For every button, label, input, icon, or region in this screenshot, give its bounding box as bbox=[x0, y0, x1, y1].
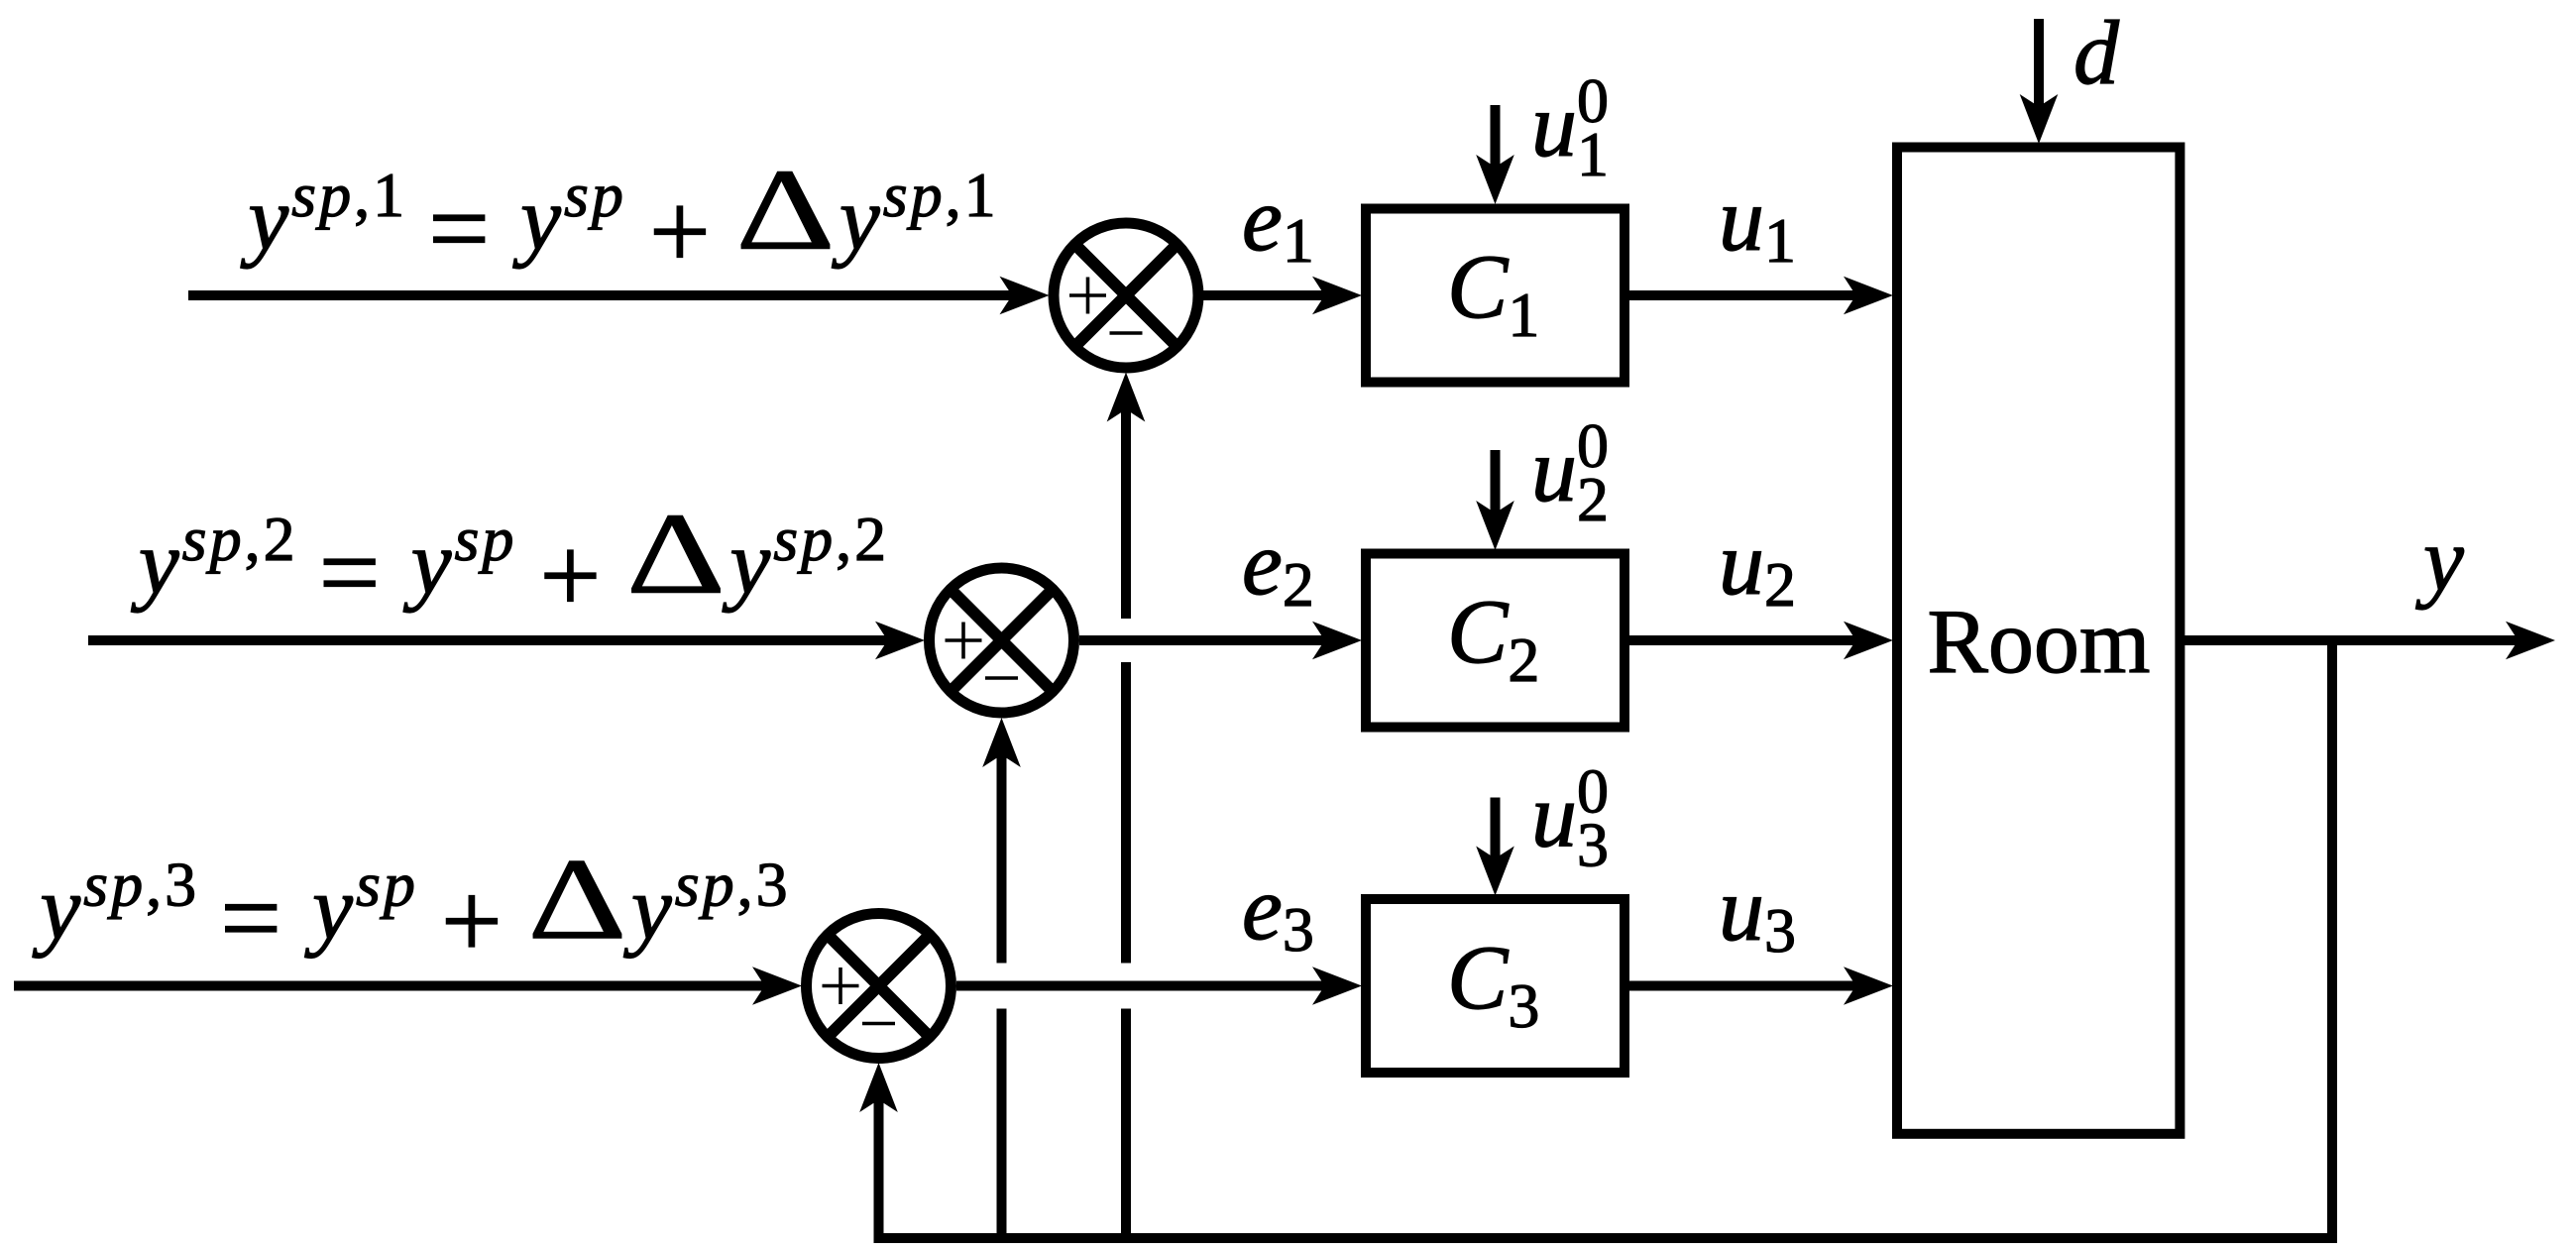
svg-text:u01: u01 bbox=[1531, 65, 1609, 189]
arrowhead into junction 3 bbox=[752, 967, 802, 1005]
svg-text:Room: Room bbox=[1928, 591, 2151, 692]
arrowhead feedback into junction 3 bottom bbox=[859, 1063, 898, 1112]
svg-text:u2: u2 bbox=[1719, 512, 1796, 620]
wire feedback riser to junction 1 bbox=[1121, 388, 1131, 1239]
wire feedback takeoff down + bus + left corner up bbox=[879, 640, 2333, 1238]
svg-text:e1: e1 bbox=[1242, 169, 1314, 276]
arrowhead u2 into Room bbox=[1844, 622, 1893, 660]
svg-text:e2: e2 bbox=[1242, 512, 1314, 620]
arrowhead e1 into C1 bbox=[1312, 277, 1362, 315]
wire u3-0 bias arrow into C3 top bbox=[1491, 798, 1501, 881]
svg-text:u3: u3 bbox=[1719, 858, 1796, 966]
controller C3 box bbox=[1366, 899, 1624, 1073]
wire u2-0 bias arrow into C2 top bbox=[1491, 450, 1501, 535]
arrowhead e2 into C2 bbox=[1312, 622, 1362, 660]
svg-text:y: y bbox=[2415, 509, 2464, 610]
svg-text:C3: C3 bbox=[1447, 927, 1539, 1041]
svg-text:e3: e3 bbox=[1242, 857, 1314, 965]
svg-text:u02: u02 bbox=[1531, 410, 1609, 534]
svg-text:d: d bbox=[2073, 2, 2120, 103]
svg-text:u03: u03 bbox=[1531, 756, 1609, 880]
arrowhead feedback into junction 2 bottom bbox=[982, 718, 1021, 767]
wire e3: junction 3 to C3 bbox=[956, 981, 1347, 991]
arrowhead u3-0 into C3 top bbox=[1476, 847, 1514, 896]
svg-text:ysp,2=ysp+Δysp,2: ysp,2=ysp+Δysp,2 bbox=[131, 489, 889, 636]
wire feedback riser to junction 2 bbox=[997, 733, 1007, 1238]
wire e2: junction 2 to C2 bbox=[1079, 635, 1347, 645]
wire setpoint line 2 bbox=[88, 635, 910, 645]
svg-text:ysp,1=ysp+Δysp,1: ysp,1=ysp+Δysp,1 bbox=[240, 145, 998, 292]
arrowhead y output bbox=[2506, 622, 2555, 660]
svg-text:u1: u1 bbox=[1719, 169, 1796, 276]
summing junction 3 bbox=[807, 914, 952, 1059]
svg-text:C2: C2 bbox=[1447, 581, 1539, 695]
arrowhead u1-0 into C1 top bbox=[1476, 155, 1514, 204]
arrowhead d into Room top bbox=[2020, 94, 2059, 144]
arrowhead u3 into Room bbox=[1844, 967, 1893, 1005]
arrowhead u1 into Room bbox=[1844, 277, 1893, 315]
svg-text:ysp,3=ysp+Δysp,3: ysp,3=ysp+Δysp,3 bbox=[32, 835, 790, 982]
wire y output line from Room bbox=[2180, 635, 2540, 645]
controller C2 box bbox=[1366, 554, 1624, 728]
wire d disturbance arrow into Room top bbox=[2034, 19, 2044, 129]
wire u1: C1 to Room bbox=[1629, 290, 1878, 300]
wire setpoint line 3 bbox=[14, 981, 787, 991]
arrowhead e3 into C3 bbox=[1312, 967, 1362, 1005]
wire u1-0 bias arrow into C1 top bbox=[1491, 105, 1501, 189]
svg-text:C1: C1 bbox=[1447, 236, 1539, 350]
arrowhead u2-0 into C2 top bbox=[1476, 501, 1514, 550]
controller C1 box bbox=[1366, 209, 1624, 383]
arrowhead into junction 1 bbox=[1000, 277, 1050, 315]
wire e1: junction 1 to C1 bbox=[1203, 290, 1347, 300]
wire u3: C3 to Room bbox=[1629, 981, 1878, 991]
wire u2: C2 to Room bbox=[1629, 635, 1878, 645]
summing junction 1 bbox=[1054, 223, 1198, 368]
arrowhead into junction 2 bbox=[875, 622, 925, 660]
Room plant box bbox=[1897, 148, 2180, 1134]
arrowhead feedback into junction 1 bottom bbox=[1107, 373, 1146, 422]
wire setpoint line 1 bbox=[188, 290, 1035, 300]
summing junction 2 bbox=[930, 568, 1074, 713]
